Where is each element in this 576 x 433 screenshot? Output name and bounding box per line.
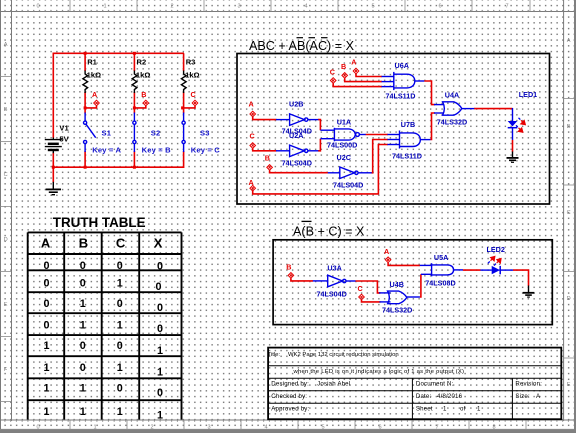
svg-text:0: 0: [43, 298, 49, 310]
svg-text:B: B: [265, 153, 270, 162]
svg-text:1kΩ: 1kΩ: [185, 71, 200, 80]
svg-text:1: 1: [43, 362, 49, 374]
svg-text:U2B: U2B: [289, 99, 303, 108]
svg-text:ABC + AB(AC) = X: ABC + AB(AC) = X: [249, 39, 355, 53]
svg-text:1: 1: [80, 298, 86, 310]
svg-text:C: C: [250, 131, 255, 140]
svg-text:V1: V1: [59, 124, 69, 133]
svg-text:LED1: LED1: [519, 90, 537, 99]
svg-text:U2A: U2A: [289, 131, 303, 140]
svg-text:E: E: [567, 382, 571, 388]
svg-text:5: 5: [371, 3, 374, 9]
svg-text:C: C: [330, 68, 335, 77]
svg-text:Size:: Size:: [515, 393, 530, 400]
svg-text:1: 1: [117, 362, 123, 374]
svg-text:A: A: [4, 42, 8, 48]
svg-text:1: 1: [43, 406, 49, 418]
svg-text:Checked by:: Checked by:: [271, 393, 307, 400]
svg-text:1: 1: [117, 406, 123, 418]
svg-text:TRUTH TABLE: TRUTH TABLE: [53, 215, 146, 230]
svg-text:1: 1: [93, 424, 96, 430]
svg-text:C: C: [116, 236, 126, 251]
svg-text:C: C: [567, 210, 571, 216]
svg-text:0: 0: [80, 260, 86, 272]
svg-text:A: A: [92, 90, 97, 99]
svg-text:1: 1: [157, 410, 163, 422]
svg-text:B: B: [4, 107, 8, 113]
svg-text:0: 0: [157, 323, 163, 335]
svg-text:1kΩ: 1kΩ: [136, 71, 151, 80]
svg-text:1: 1: [43, 340, 49, 352]
svg-text:4/8/2016: 4/8/2016: [437, 393, 463, 400]
svg-text:0: 0: [43, 319, 49, 331]
svg-text:0: 0: [36, 3, 39, 9]
svg-text:1: 1: [80, 319, 86, 331]
svg-text:74LS32D: 74LS32D: [437, 117, 467, 126]
svg-text:A(B + C) = X: A(B + C) = X: [293, 224, 365, 238]
svg-text:B: B: [286, 263, 291, 272]
svg-text:Date:: Date:: [416, 393, 432, 400]
svg-text:1: 1: [477, 406, 481, 413]
svg-text:of: of: [460, 406, 466, 413]
svg-text:B: B: [567, 124, 571, 130]
svg-text:Key = B: Key = B: [142, 145, 171, 154]
svg-text:S1: S1: [102, 129, 112, 138]
svg-text:C: C: [358, 284, 363, 293]
svg-text:1: 1: [117, 319, 123, 331]
svg-text:U3A: U3A: [327, 263, 341, 272]
svg-text:B: B: [341, 62, 346, 71]
svg-text:1: 1: [80, 406, 86, 418]
svg-text:U2C: U2C: [337, 153, 351, 162]
svg-text:R3: R3: [186, 58, 196, 67]
svg-text:Document N:: Document N:: [416, 381, 454, 388]
svg-text:U4B: U4B: [390, 280, 404, 289]
svg-text:74LS11D: 74LS11D: [386, 91, 416, 100]
svg-text:C: C: [4, 172, 8, 178]
svg-text:0: 0: [157, 302, 163, 314]
svg-text:0: 0: [117, 260, 123, 272]
svg-text:7: 7: [505, 3, 508, 9]
svg-text:4: 4: [264, 424, 267, 430]
svg-text:7: 7: [435, 424, 438, 430]
svg-text:U4A: U4A: [445, 90, 459, 99]
svg-text:5: 5: [321, 424, 324, 430]
svg-text:0: 0: [43, 260, 49, 272]
svg-text:B: B: [141, 90, 146, 99]
svg-text:4: 4: [304, 3, 307, 9]
svg-text:D: D: [4, 237, 8, 243]
svg-text:S2: S2: [151, 129, 161, 138]
svg-text:A: A: [384, 247, 389, 256]
svg-text:A: A: [567, 38, 571, 44]
svg-text:A: A: [351, 58, 356, 67]
svg-text:74LS08D: 74LS08D: [425, 279, 455, 288]
svg-text:Title:: Title:: [268, 352, 281, 358]
svg-text:0: 0: [117, 382, 123, 394]
svg-text:1: 1: [117, 277, 123, 289]
svg-text:0: 0: [155, 281, 161, 293]
svg-text:U6A: U6A: [395, 61, 409, 70]
svg-text:3: 3: [207, 424, 210, 430]
svg-text:Revision:: Revision:: [515, 381, 542, 388]
svg-text:0: 0: [36, 424, 39, 430]
svg-text:6: 6: [378, 424, 381, 430]
svg-text:6: 6: [438, 3, 441, 9]
svg-text:0: 0: [80, 340, 86, 352]
svg-text:3: 3: [237, 3, 240, 9]
svg-text:R1: R1: [87, 58, 97, 67]
svg-text:5V: 5V: [59, 135, 69, 144]
svg-text:74LS04D: 74LS04D: [333, 180, 363, 189]
svg-text:A: A: [249, 178, 254, 187]
svg-text:1: 1: [157, 345, 163, 357]
svg-text:B: B: [79, 236, 88, 251]
svg-text:R2: R2: [137, 58, 147, 67]
svg-text:8: 8: [492, 424, 495, 430]
svg-text:1: 1: [103, 3, 106, 9]
svg-text:C: C: [191, 90, 196, 99]
svg-text:A: A: [41, 236, 51, 251]
svg-text:74LS32D: 74LS32D: [382, 306, 412, 315]
svg-text:Josiah Abel: Josiah Abel: [317, 381, 350, 388]
svg-text:Designed by:: Designed by:: [271, 381, 309, 388]
svg-text:0: 0: [117, 340, 123, 352]
svg-text:when the LED is on it indicate: when the LED is on it indicates a logic …: [293, 369, 465, 375]
svg-text:WK2 Page 132 circuit reduction: WK2 Page 132 circuit reduction simulatio…: [288, 352, 399, 358]
svg-text:Key = C: Key = C: [191, 145, 220, 154]
svg-text:0: 0: [80, 277, 86, 289]
svg-text:1kΩ: 1kΩ: [87, 71, 102, 80]
svg-text:Sheet: Sheet: [416, 406, 433, 413]
svg-text:S3: S3: [200, 129, 210, 138]
svg-text:0: 0: [157, 387, 163, 399]
svg-text:1: 1: [157, 366, 163, 378]
svg-text:0: 0: [117, 298, 123, 310]
svg-text:1: 1: [43, 382, 49, 394]
svg-text:A: A: [249, 100, 254, 109]
svg-text:74LS04D: 74LS04D: [282, 158, 312, 167]
svg-text:74LS11D: 74LS11D: [392, 151, 422, 160]
svg-text:U1A: U1A: [337, 117, 351, 126]
svg-text:2: 2: [150, 424, 153, 430]
svg-text:Key = A: Key = A: [92, 145, 121, 154]
svg-text:74LS04D: 74LS04D: [317, 290, 347, 299]
svg-text:1: 1: [80, 382, 86, 394]
svg-text:F: F: [4, 367, 8, 373]
svg-text:U5A: U5A: [434, 253, 448, 262]
svg-text:U7B: U7B: [401, 120, 415, 129]
svg-text:0: 0: [80, 362, 86, 374]
svg-text:74LS00D: 74LS00D: [327, 141, 357, 150]
svg-text:E: E: [4, 302, 8, 308]
svg-text:2: 2: [170, 3, 173, 9]
svg-text:LED2: LED2: [487, 245, 505, 254]
svg-text:D: D: [567, 296, 571, 302]
svg-text:X: X: [154, 236, 163, 251]
svg-text:Approved by:: Approved by:: [271, 406, 309, 413]
svg-text:0: 0: [157, 261, 163, 273]
svg-text:0: 0: [43, 277, 49, 289]
svg-text:1: 1: [443, 406, 447, 413]
